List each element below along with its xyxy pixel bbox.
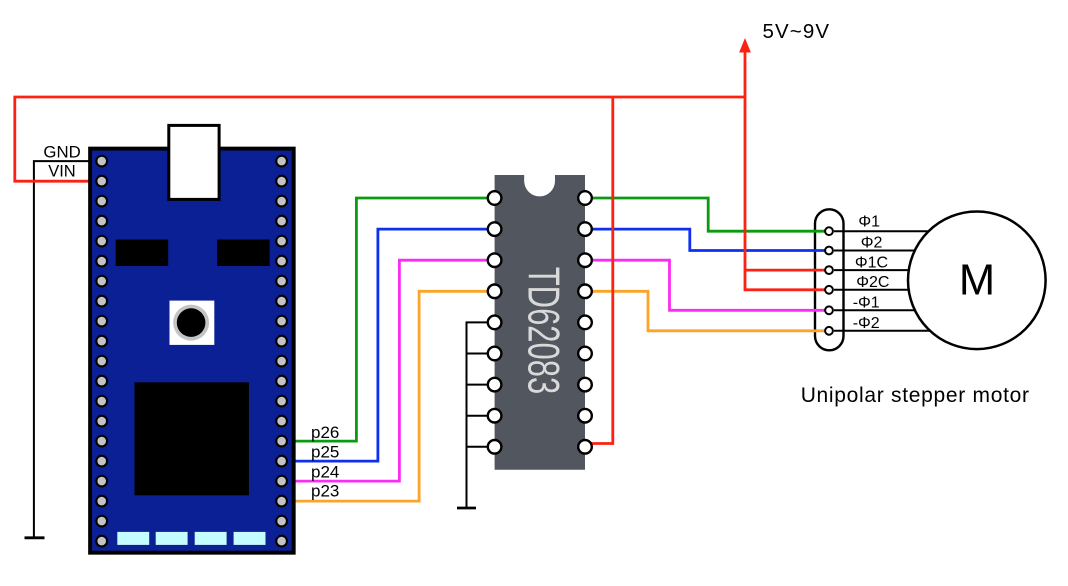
motor M1 body [908,211,1046,349]
wire GND board to left rail [34,161,91,538]
wire IC pin9 to bus [467,446,491,448]
wire IC pin8 to bus [467,415,491,417]
IC U1 pins right [578,191,592,453]
wire motor phase line 1 [834,230,940,232]
wire red branch to IC pin9 right [591,97,613,444]
mbed pad 3 [195,532,227,545]
wire magenta p24 board to IC pin3 [293,260,490,481]
svg-text:Φ1C: Φ1C [855,254,888,271]
arrow 5V supply [739,38,751,53]
svg-text:p24: p24 [311,462,339,481]
IC U1 notch [524,172,555,181]
IC U1 pins left [488,191,502,453]
svg-text:p26: p26 [311,423,339,442]
mbed pad 1 [117,532,149,545]
svg-text:-Φ2: -Φ2 [853,315,880,332]
wire blue p25 board to IC pin2 [293,229,490,461]
svg-text:Φ2: Φ2 [861,235,883,252]
svg-text:TD62083: TD62083 [518,267,568,395]
connector J1 pins [825,227,833,334]
mbed pad 4 [234,532,266,545]
wire IC pin6 to bus [467,353,491,355]
svg-text:p25: p25 [311,443,339,462]
mbed chip small left [116,240,169,267]
wire IC pin7 to bus [467,384,491,386]
mbed USB connector [169,125,219,199]
svg-text:Φ1: Φ1 [858,214,880,231]
mbed main chip [135,382,250,495]
IC U1 TD62083 body [495,175,585,470]
wire green IC pin1 to connector phi1 [590,198,825,231]
wire orange IC pin4 to connector -phi2 [590,291,825,331]
mbed board outline [90,149,294,553]
svg-text:M: M [959,257,995,305]
ground symbol left [25,536,45,539]
wire motor phase line 6 [834,330,940,332]
svg-text:5V~9V: 5V~9V [763,20,831,43]
wire red supply vertical to connector [745,48,825,290]
connector J1 body [815,209,844,350]
wire motor phase line 5 [834,309,940,311]
wire orange p23 board to IC pin4 [293,291,490,501]
wire green p26 board to IC pin1 [293,198,490,441]
svg-text:GND: GND [43,143,80,162]
mbed pad 2 [156,532,188,545]
mbed pins left column [96,156,107,547]
wire motor phase line 3 [834,269,940,271]
svg-text:VIN: VIN [48,163,76,181]
svg-text:Φ2C: Φ2C [856,274,889,291]
svg-text:p23: p23 [311,482,339,501]
wire IC ground bus [467,322,491,508]
wire motor phase line 2 [834,250,940,252]
wire red branch to connector phi1C [745,269,825,272]
mbed reset button [170,301,215,345]
mbed chip small right [217,240,270,267]
svg-text:Unipolar stepper motor: Unipolar stepper motor [801,384,1030,407]
wire magenta IC pin3 to connector -phi1 [590,260,825,310]
ground symbol IC bus [457,507,476,510]
mbed pins right column [276,156,287,547]
wire motor phase line 4 [834,289,940,291]
wire red VIN and top power rail [15,97,745,181]
wire blue IC pin2 to connector phi2 [590,229,825,250]
svg-text:-Φ1: -Φ1 [853,295,880,312]
